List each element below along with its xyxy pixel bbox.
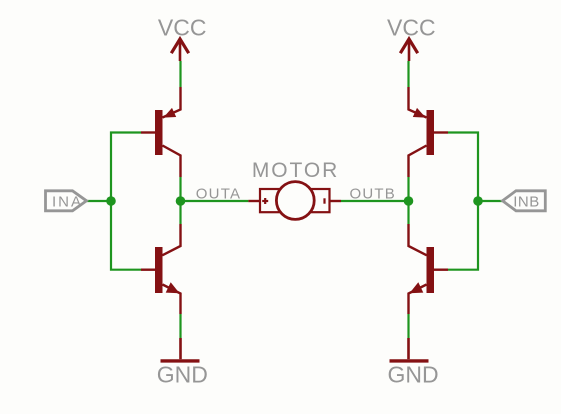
transistor Q4 (NPN, right bottom) <box>409 224 449 314</box>
transistor Q1 (PNP, left top) <box>141 87 181 177</box>
svg-text:INB: INB <box>513 193 540 210</box>
transistor Q3 (PNP, right top) <box>409 87 449 177</box>
node junction INB <box>473 196 483 206</box>
supply symbol VCC right <box>400 39 417 61</box>
svg-text:VCC: VCC <box>158 14 207 40</box>
motor M1 <box>248 182 341 220</box>
wire <box>448 133 478 270</box>
wire <box>179 314 181 338</box>
wire <box>181 200 249 202</box>
wire <box>407 61 409 87</box>
svg-text:MOTOR: MOTOR <box>252 159 339 182</box>
flag INB <box>503 191 546 211</box>
svg-text:GND: GND <box>387 362 438 388</box>
supply symbol VCC left <box>171 39 188 61</box>
wire <box>111 133 141 270</box>
wire <box>407 177 409 224</box>
wire <box>407 314 409 338</box>
transistor Q2 (NPN, left bottom) <box>141 224 181 314</box>
svg-text:GND: GND <box>157 362 208 388</box>
wire <box>341 200 409 202</box>
wire <box>87 200 112 202</box>
wire <box>179 177 181 224</box>
svg-text:VCC: VCC <box>387 14 436 40</box>
svg-text:INA: INA <box>52 193 83 210</box>
node OUTA <box>176 196 186 206</box>
wire <box>179 61 181 87</box>
node OUTB <box>404 196 414 206</box>
wire <box>478 200 503 202</box>
ground symbol left <box>161 338 200 361</box>
ground symbol right <box>390 338 429 361</box>
node junction INA <box>106 196 116 206</box>
svg-text:OUTB: OUTB <box>350 186 396 203</box>
flag INA <box>46 191 87 211</box>
